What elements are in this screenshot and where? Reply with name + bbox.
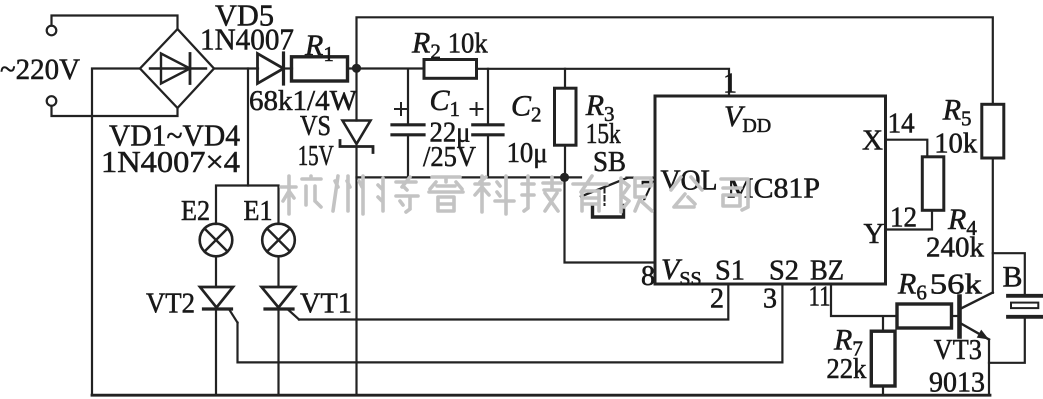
wire VT1 cathode	[277, 309, 279, 395]
wire zener column	[355, 68, 357, 395]
svg-text:S1: S1	[715, 255, 745, 287]
svg-text:VS: VS	[300, 110, 331, 142]
wire VD5 to R1	[284, 67, 293, 69]
bridge rectifier VD1~VD4	[140, 29, 214, 108]
capacitor C2	[471, 103, 504, 135]
wire DC minus rail left	[92, 69, 140, 396]
lamp E1	[262, 224, 295, 257]
svg-text:10μ: 10μ	[507, 137, 548, 169]
op-amp U1 MC81P IC body	[655, 96, 886, 284]
wire BZ pin11 to R6 R7	[831, 284, 897, 395]
svg-text:15V: 15V	[298, 140, 334, 172]
svg-text:Y: Y	[864, 218, 885, 250]
svg-text:VOL: VOL	[661, 166, 718, 197]
svg-text:VT1: VT1	[300, 288, 352, 320]
node junction ground	[560, 173, 569, 182]
terminal bottom	[47, 96, 57, 106]
node junction R1 output	[352, 64, 361, 73]
svg-text:~220V: ~220V	[0, 53, 80, 86]
wire Y pin12 to R4	[886, 210, 933, 229]
resistor R1	[292, 57, 348, 81]
thyristor VT1	[262, 287, 300, 320]
wire buzzer top branch	[993, 253, 1025, 293]
wire VSS pin8	[565, 177, 656, 262]
svg-text:10k: 10k	[934, 128, 977, 160]
diode VD5	[258, 53, 284, 84]
wire bottom ground rail	[92, 394, 990, 397]
svg-text:VDD: VDD	[724, 100, 771, 137]
wire lamp E2 to VT2	[215, 256, 217, 287]
svg-text:E1: E1	[244, 196, 273, 227]
svg-text:10k: 10k	[448, 28, 488, 60]
wire buzzer bottom to emitter	[989, 319, 1025, 363]
wire ground net horizontal	[357, 176, 565, 178]
wire lamp E1 to VT1	[277, 256, 279, 287]
svg-text:SB: SB	[593, 146, 626, 178]
resistor R7	[871, 331, 895, 386]
wire R6 to base	[952, 315, 958, 317]
resistor R2	[424, 60, 477, 79]
svg-text:1N4007×4: 1N4007×4	[101, 144, 241, 179]
wire riser and top rail	[357, 17, 993, 104]
svg-text:12: 12	[890, 203, 917, 234]
wire C2 leads	[487, 69, 489, 178]
wire VT2 cathode	[215, 309, 217, 395]
svg-text:E2: E2	[181, 196, 210, 227]
wire R3 leads	[564, 69, 566, 178]
svg-text:2: 2	[710, 284, 724, 315]
watermark text 杭州将睿科技有限公司	[281, 176, 748, 214]
svg-text:240k: 240k	[926, 232, 985, 264]
svg-text:14: 14	[888, 109, 915, 140]
wire R2 to pin1	[477, 69, 730, 96]
wire lamp bus	[216, 186, 279, 225]
svg-text:VSS: VSS	[661, 253, 702, 290]
buzzer B	[1008, 296, 1042, 317]
wire AC input bottom	[52, 106, 178, 116]
svg-text:R2: R2	[411, 27, 441, 64]
wire SB contacts	[565, 176, 656, 178]
zener diode VS	[340, 121, 373, 153]
wire S1 pin2 to VT1 gate	[299, 284, 728, 320]
svg-text:B: B	[1003, 261, 1023, 294]
svg-text:3: 3	[763, 284, 777, 315]
svg-text:C2: C2	[511, 90, 542, 127]
wire R1 to R2	[348, 67, 425, 69]
svg-text:R1: R1	[304, 29, 334, 66]
svg-text:1N4007: 1N4007	[200, 22, 294, 57]
svg-text:11: 11	[809, 282, 831, 313]
wire R5 bottom to collector	[992, 158, 994, 293]
switch SB	[581, 178, 627, 217]
svg-text:22k: 22k	[826, 353, 866, 385]
wire bridge to VD5	[214, 67, 258, 69]
svg-text:9013: 9013	[929, 367, 985, 399]
capacitor C1	[392, 103, 424, 135]
svg-text:VT3: VT3	[934, 334, 982, 366]
wire AC input top	[52, 16, 178, 30]
resistor R4	[922, 157, 944, 211]
svg-text:R6: R6	[897, 268, 927, 305]
svg-text:8: 8	[641, 261, 655, 292]
wire emitter to ground	[988, 340, 990, 396]
wire X pin14 to R4	[886, 140, 928, 157]
wire lamp feed drop	[247, 69, 249, 186]
lamp E2	[200, 224, 233, 257]
wire C1 leads	[407, 69, 409, 178]
svg-text:X: X	[862, 125, 883, 157]
svg-text:1: 1	[723, 69, 737, 100]
svg-text:S2: S2	[769, 255, 799, 287]
resistor R5	[982, 104, 1004, 158]
svg-text:56k: 56k	[930, 269, 983, 301]
thyristor VT2	[200, 287, 238, 323]
svg-text:/25V: /25V	[423, 141, 476, 173]
resistor R6	[897, 304, 952, 328]
svg-text:VT2: VT2	[146, 288, 195, 320]
wire S2 pin3 to VT2 gate	[238, 284, 783, 362]
terminal top	[47, 26, 57, 36]
svg-text:C1: C1	[430, 84, 461, 121]
svg-text:R5: R5	[942, 94, 972, 131]
transistor VT3	[960, 293, 993, 340]
resistor R3	[555, 88, 577, 145]
